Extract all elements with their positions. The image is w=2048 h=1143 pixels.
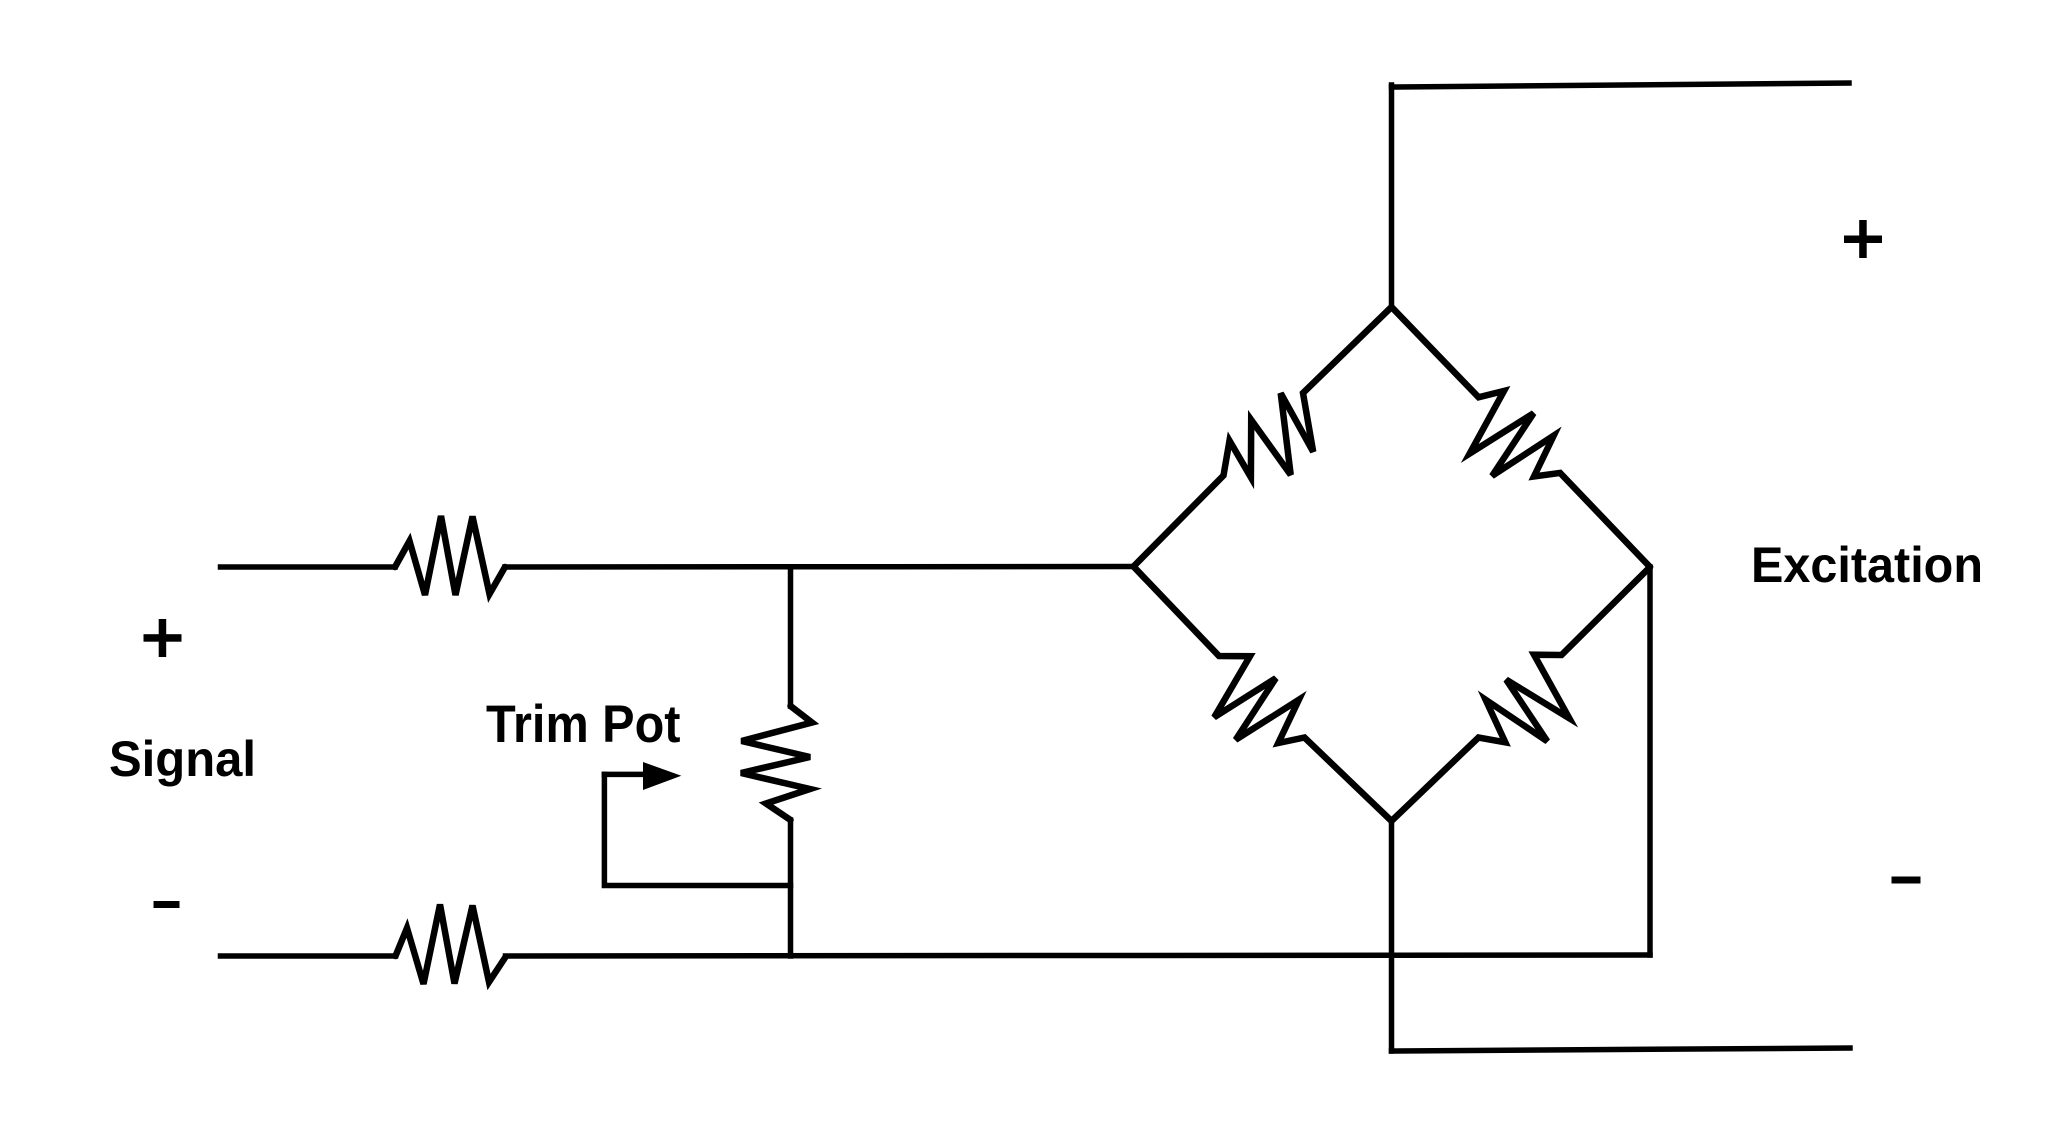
wire wiper arrow shaft bbox=[604, 772, 645, 778]
wire excitation + top horizontal bbox=[1392, 83, 1850, 87]
label + (excitation) bbox=[1844, 220, 1882, 258]
wire excitation - bottom horizontal bbox=[1392, 1048, 1851, 1051]
label + (signal) bbox=[144, 619, 182, 657]
resistor bridge bottom-right (with wires to right vertex and bottom vertex) bbox=[1392, 567, 1651, 821]
wire right vertex down to bottom signal wire bbox=[1647, 567, 1653, 955]
wire bridge bottom vertical through signal wire down to excitation - bbox=[1389, 821, 1395, 1051]
wiper arrowhead bbox=[643, 762, 681, 790]
wire signal - left segment bbox=[221, 953, 396, 959]
svg-text:Excitation: Excitation bbox=[1751, 537, 1983, 593]
resistor signal + (horizontal) bbox=[395, 516, 505, 595]
resistor signal - (horizontal) bbox=[396, 905, 506, 985]
wire signal + left segment bbox=[221, 564, 396, 570]
label - (excitation) bbox=[1892, 877, 1921, 884]
label - (signal) bbox=[154, 901, 180, 908]
wire trim pot top (junction to resistor) bbox=[788, 567, 794, 706]
wire excitation + vertical drop to bridge top bbox=[1389, 85, 1395, 307]
resistor bridge top-left (with wires to left vertex and top vertex) bbox=[1134, 307, 1392, 567]
wire signal + to bridge left vertex bbox=[505, 564, 1134, 570]
svg-text:Trim Pot: Trim Pot bbox=[486, 695, 681, 754]
wire signal - to right vertex drop bbox=[506, 955, 1651, 956]
wire trim pot bottom to signal - wire bbox=[788, 820, 794, 956]
resistor trim pot (vertical) bbox=[741, 706, 812, 820]
resistor bridge top-right (with wires to top vertex and right vertex) bbox=[1392, 307, 1651, 567]
resistor bridge bottom-left (with wires to left vertex and bottom vertex) bbox=[1134, 567, 1392, 822]
wire trim pot wiper L (down and right to bottom terminal) bbox=[604, 774, 790, 885]
svg-text:Signal: Signal bbox=[109, 731, 256, 787]
